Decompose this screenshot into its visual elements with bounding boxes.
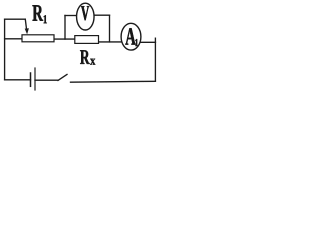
wire rheostat slider drop: [25, 19, 26, 30]
label V in voltmeter: [81, 6, 89, 20]
wire switch to battery: [35, 79, 58, 81]
label A in ammeter: [125, 28, 135, 44]
wire bottom right: [71, 80, 156, 83]
wire Rx to ammeter: [99, 41, 123, 43]
wire right vertical: [154, 42, 156, 81]
voltmeter ellipse: [77, 3, 95, 30]
wire voltmeter left leg: [64, 16, 66, 40]
label Rx: [80, 50, 90, 64]
wire rheostat slider top: [5, 18, 26, 20]
label A subscript 1: [135, 39, 138, 46]
battery short plate: [30, 73, 32, 86]
wire R1 left stub: [5, 38, 22, 40]
wire battery to left corner: [5, 79, 31, 81]
wire voltmeter top right: [94, 14, 110, 16]
label R1: [32, 5, 43, 20]
wire left vertical: [4, 19, 6, 79]
label R1 subscript 1: [44, 15, 47, 23]
label Rx subscript x: [90, 59, 95, 65]
resistor Rx box: [75, 36, 99, 44]
rheostat arrow head: [25, 28, 29, 34]
wire R1 to Rx: [54, 38, 75, 40]
battery long plate: [34, 68, 36, 90]
wire ammeter to right corner: [140, 41, 155, 43]
ammeter ellipse: [121, 23, 141, 50]
corner nub above right corner: [154, 38, 156, 42]
wire voltmeter top left: [65, 15, 77, 17]
switch blade: [58, 74, 67, 80]
resistor R1 box: [22, 35, 54, 42]
wire voltmeter right leg: [109, 15, 111, 42]
